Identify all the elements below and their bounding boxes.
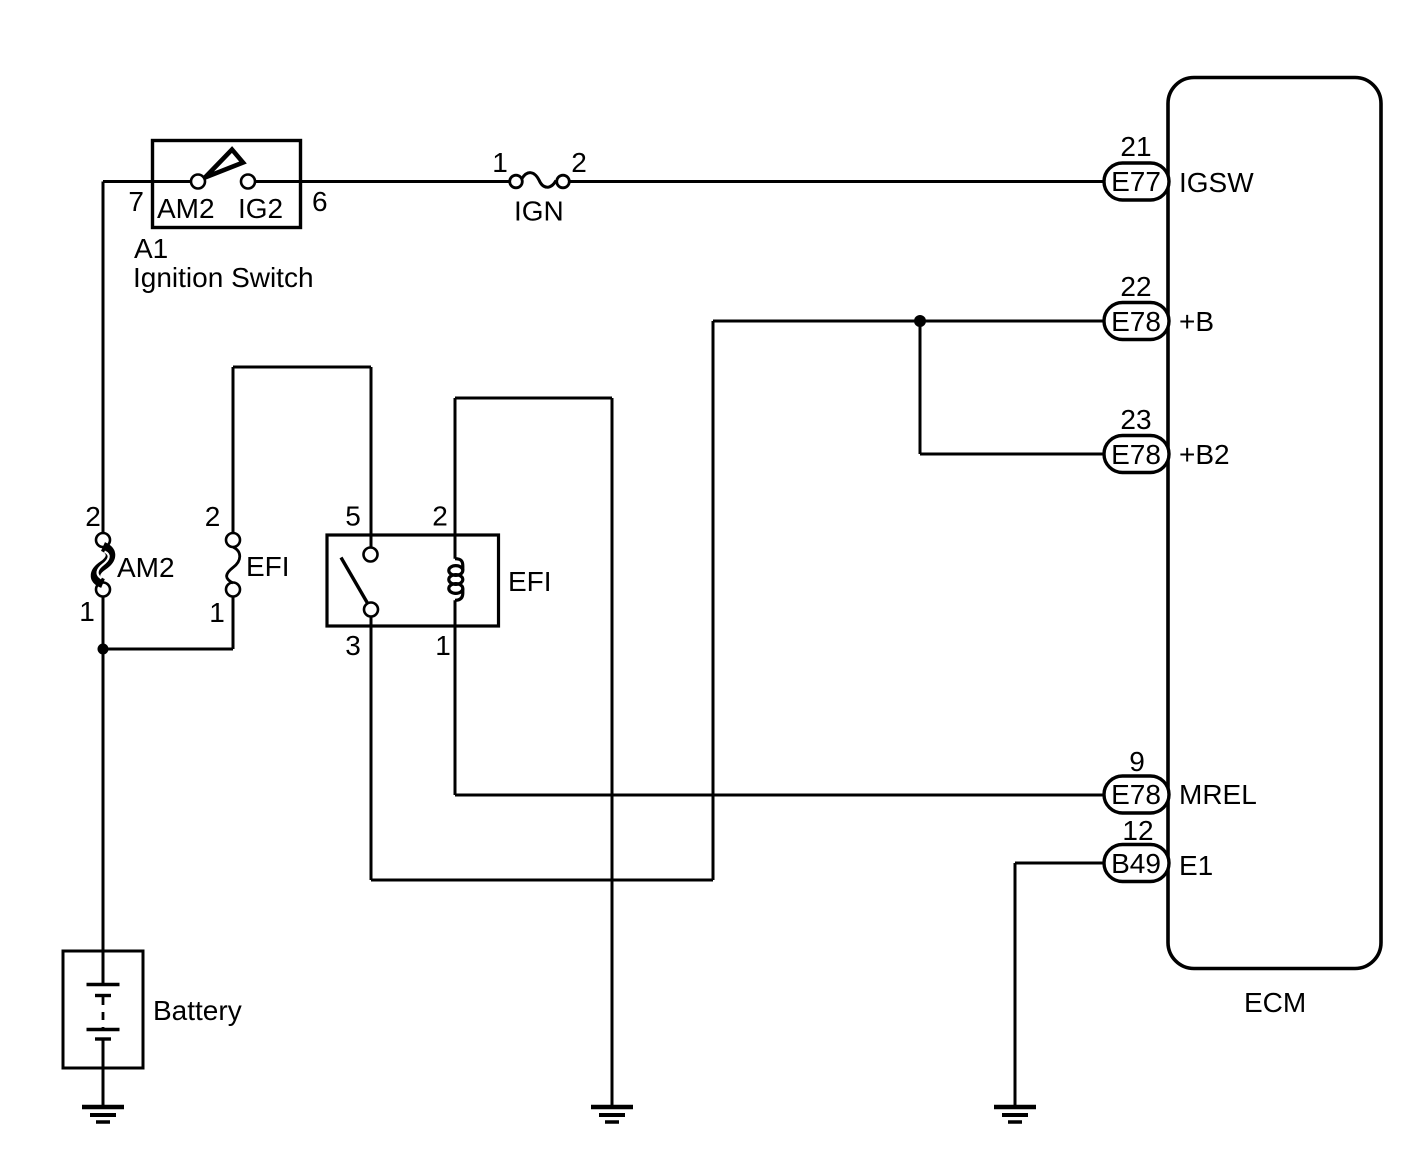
connector B49 pin 12 oval — [1104, 845, 1169, 882]
wire junction to EFI fuse bottom — [103, 596, 233, 649]
connector E78 pin 23 oval — [1104, 436, 1169, 473]
svg-text:+B2: +B2 — [1179, 439, 1230, 470]
svg-text:1: 1 — [209, 597, 225, 628]
wire IGN fuse to E77 — [569, 180, 1106, 183]
wire relay pin 3 down — [370, 616, 373, 880]
svg-text:3: 3 — [345, 630, 361, 661]
svg-text:21: 21 — [1120, 131, 1151, 162]
relay switch blade — [341, 558, 368, 605]
svg-text:22: 22 — [1120, 271, 1151, 302]
svg-text:1: 1 — [79, 596, 95, 627]
relay coil — [449, 559, 463, 601]
svg-text:AM2: AM2 — [117, 552, 175, 583]
wire EFI fuse to relay pin 5 — [233, 367, 371, 548]
svg-text:1: 1 — [492, 147, 508, 178]
wire battery internal top — [102, 951, 105, 984]
terminal IG2 circle — [241, 175, 255, 189]
wire pin 3 horizontal — [371, 879, 713, 882]
ground right — [994, 1107, 1036, 1122]
svg-text:E78: E78 — [1111, 779, 1161, 810]
svg-text:+B: +B — [1179, 306, 1214, 337]
svg-text:E78: E78 — [1111, 439, 1161, 470]
svg-text:E77: E77 — [1111, 166, 1161, 197]
fuse IGN — [522, 173, 556, 188]
wire EFI fuse top vertical — [232, 367, 235, 534]
ground battery — [82, 1107, 124, 1122]
svg-text:ECM: ECM — [1244, 987, 1306, 1018]
svg-text:1: 1 — [435, 630, 451, 661]
svg-text:2: 2 — [432, 501, 448, 532]
svg-text:Ignition Switch: Ignition Switch — [133, 262, 314, 293]
svg-text:2: 2 — [571, 147, 587, 178]
svg-text:2: 2 — [85, 501, 101, 532]
connector E77 pin 21 oval — [1104, 163, 1169, 200]
svg-text:A1: A1 — [134, 233, 168, 264]
switch blade — [205, 150, 243, 178]
wire ground drop middle — [611, 398, 614, 1105]
wire coil pin 2 up — [454, 398, 457, 559]
svg-text:EFI: EFI — [246, 551, 290, 582]
wire battery to ignition switch vertical — [102, 182, 105, 534]
wire coil pin 1 down to MREL line — [454, 600, 457, 795]
junction dot AM2/EFI — [98, 644, 109, 655]
ECM box — [1168, 78, 1381, 969]
svg-text:IGN: IGN — [514, 196, 564, 227]
ignition switch A1 box — [153, 141, 301, 228]
ground middle — [591, 1107, 633, 1122]
battery box — [63, 951, 143, 1068]
svg-text:E78: E78 — [1111, 306, 1161, 337]
svg-text:6: 6 — [312, 186, 328, 217]
relay pin 3 contact — [364, 603, 378, 617]
wire IG2 terminal to IGN fuse — [254, 180, 511, 183]
svg-text:23: 23 — [1120, 404, 1151, 435]
junction dot +B/+B2 — [914, 315, 926, 327]
wire MREL horizontal — [455, 794, 1106, 797]
wire E1 to ground — [1015, 863, 1106, 1105]
svg-text:IGSW: IGSW — [1179, 167, 1254, 198]
battery plates — [87, 983, 120, 986]
svg-text:12: 12 — [1122, 815, 1153, 846]
wire pin 2 horizontal to ground drop — [455, 397, 612, 400]
wire +B2 branch — [920, 321, 1106, 454]
connector E78 pin 9 oval — [1104, 776, 1169, 813]
relay pin 5 contact — [364, 548, 378, 562]
svg-text:EFI: EFI — [508, 566, 552, 597]
svg-text:AM2: AM2 — [157, 193, 215, 224]
svg-text:B49: B49 — [1111, 848, 1161, 879]
svg-text:9: 9 — [1129, 746, 1145, 777]
svg-text:2: 2 — [205, 501, 221, 532]
svg-text:MREL: MREL — [1179, 779, 1257, 810]
terminal AM2 circle — [191, 175, 205, 189]
connector E78 pin 22 oval — [1104, 303, 1169, 340]
fusible link AM2 — [96, 533, 110, 547]
wire +B horizontal — [713, 320, 1106, 323]
wire vertical up to +B line — [712, 321, 715, 880]
svg-text:E1: E1 — [1179, 850, 1213, 881]
svg-text:Battery: Battery — [153, 995, 242, 1026]
relay EFI box — [327, 535, 499, 626]
wire fusible link bottom to battery — [102, 597, 105, 951]
wire top horizontal to AM2 terminal — [103, 180, 193, 183]
fuse EFI — [226, 533, 240, 547]
svg-text:5: 5 — [345, 501, 361, 532]
svg-text:IG2: IG2 — [238, 193, 283, 224]
wire battery bottom to ground — [102, 1038, 105, 1105]
svg-text:7: 7 — [128, 186, 144, 217]
